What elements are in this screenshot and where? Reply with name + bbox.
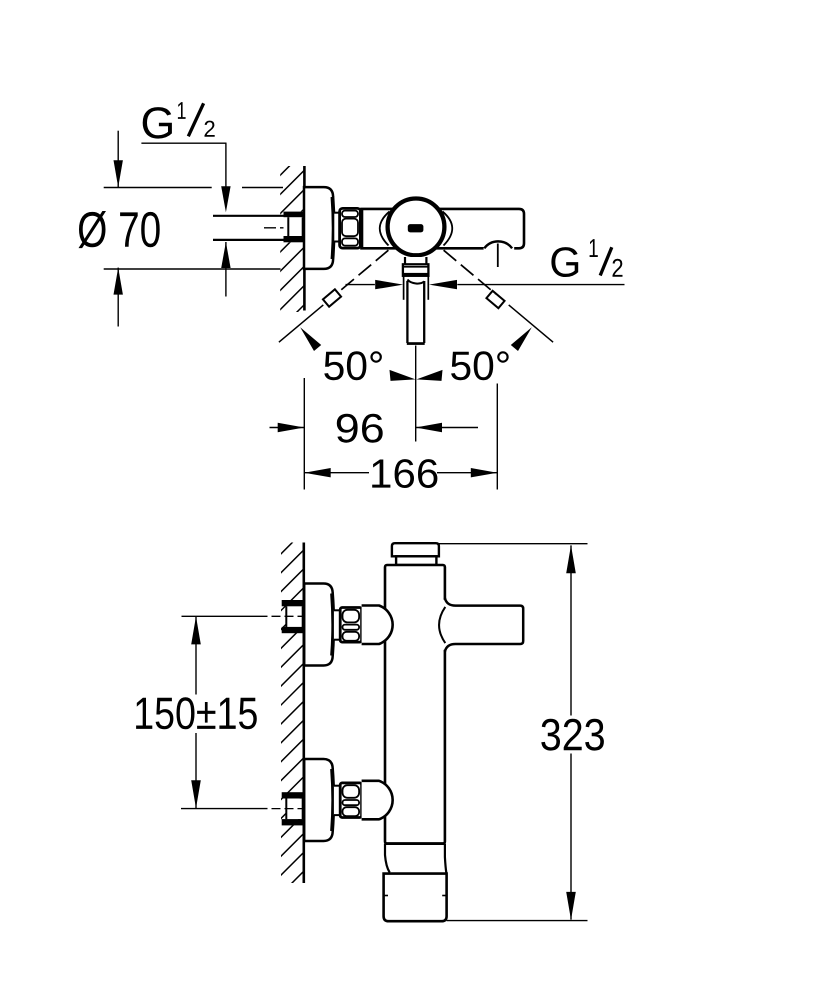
dim G1/2 right: arrows at outlet bbox=[375, 280, 403, 289]
swing limit line right bbox=[509, 305, 553, 342]
union hex nut (top view) bbox=[340, 208, 361, 248]
spout outlet notch bbox=[484, 247, 515, 251]
connector neck bbox=[334, 214, 339, 241]
dim G1/2 top-left: text bbox=[143, 107, 172, 139]
handle sleeve lines bbox=[403, 276, 405, 300]
thermostat knob circle (top view) bbox=[388, 199, 445, 256]
upper supply thread block bbox=[286, 606, 304, 627]
angle arc arrowhead right bbox=[511, 327, 532, 351]
lower escutcheon (side view) bbox=[304, 759, 334, 841]
swing end position left (rotated rect) bbox=[323, 289, 341, 306]
wall line (top view) bbox=[303, 166, 306, 311]
pipe centerline bbox=[264, 227, 303, 229]
lower supply thread block bbox=[286, 799, 304, 820]
label 150+-15 bbox=[136, 697, 257, 729]
wall line (side view) bbox=[302, 543, 305, 884]
spout inner arc bbox=[439, 607, 445, 643]
handle shaft (bottom outlet, top view) bbox=[407, 279, 424, 345]
upper escutcheon (side view) bbox=[304, 584, 334, 666]
mixer body (top view) bbox=[362, 209, 525, 248]
G 1/2 thread block (top view) bbox=[284, 212, 304, 243]
dim G1/2 right: leader line bbox=[346, 284, 375, 286]
swing end position right (rotated rect) bbox=[486, 291, 504, 308]
label 50deg right bbox=[451, 351, 509, 380]
spout (side view) bbox=[443, 600, 449, 650]
upper escutcheon stub bbox=[334, 610, 340, 639]
dim O70: arrows bbox=[117, 131, 119, 188]
label 166 bbox=[372, 459, 437, 488]
swing limit line left bbox=[279, 305, 323, 342]
upper pipe centerline / dim extension bbox=[182, 615, 268, 617]
handle centerline bbox=[415, 346, 417, 442]
dim O70: extension lines bbox=[104, 187, 212, 189]
lower union cone with ball bbox=[362, 781, 393, 820]
handle neck bbox=[405, 257, 426, 264]
lower pipe centerline / dim extension bbox=[181, 808, 268, 810]
body (side view) bbox=[385, 565, 445, 844]
upper union hex nut (side view) bbox=[340, 608, 361, 643]
wall supply pipe (top view) bbox=[213, 216, 304, 240]
label 50deg left bbox=[324, 351, 382, 380]
fraction slash bbox=[188, 103, 203, 136]
lower escutcheon stub bbox=[334, 786, 340, 815]
dim 166 bbox=[304, 472, 369, 474]
G1/2 leader vertical + arrow bbox=[225, 143, 227, 186]
label O70 bbox=[79, 211, 160, 248]
top cap stem bbox=[396, 556, 436, 565]
knob collar crescents bbox=[380, 212, 390, 246]
G1/2 leader underline bbox=[141, 142, 226, 144]
bottom neck taper bbox=[385, 844, 390, 873]
lower union hex nut (side view) bbox=[340, 783, 361, 818]
spout outlet extension line bbox=[496, 384, 498, 490]
body bottom ring line bbox=[385, 842, 445, 845]
wall extension line for dims bbox=[303, 378, 305, 490]
bottom cap (shower hose outlet) bbox=[384, 874, 447, 922]
angle arc arrowhead left bbox=[300, 327, 321, 351]
dashed swing line right 50deg bbox=[444, 250, 496, 294]
GROHE logo mark bbox=[408, 224, 424, 232]
dim 96 bbox=[270, 427, 305, 429]
handle collar bbox=[403, 264, 429, 276]
label 323 bbox=[541, 719, 604, 751]
top cap flange (shower outlet) bbox=[392, 543, 439, 556]
dim 150+-15: arrows bbox=[195, 616, 197, 694]
dashed swing line left 50deg bbox=[341, 250, 389, 290]
dim 323: line and arrows bbox=[570, 545, 572, 715]
label 96 bbox=[337, 414, 383, 443]
escutcheon Nr.70 (top view) bbox=[304, 187, 334, 269]
upper union cone with ball bbox=[362, 606, 393, 645]
label G1/2 right bbox=[551, 247, 578, 277]
dim 323: extension lines bbox=[439, 543, 588, 545]
arrow below pipe bbox=[225, 242, 227, 297]
angle arc arrowheads at centerline bbox=[390, 370, 416, 381]
